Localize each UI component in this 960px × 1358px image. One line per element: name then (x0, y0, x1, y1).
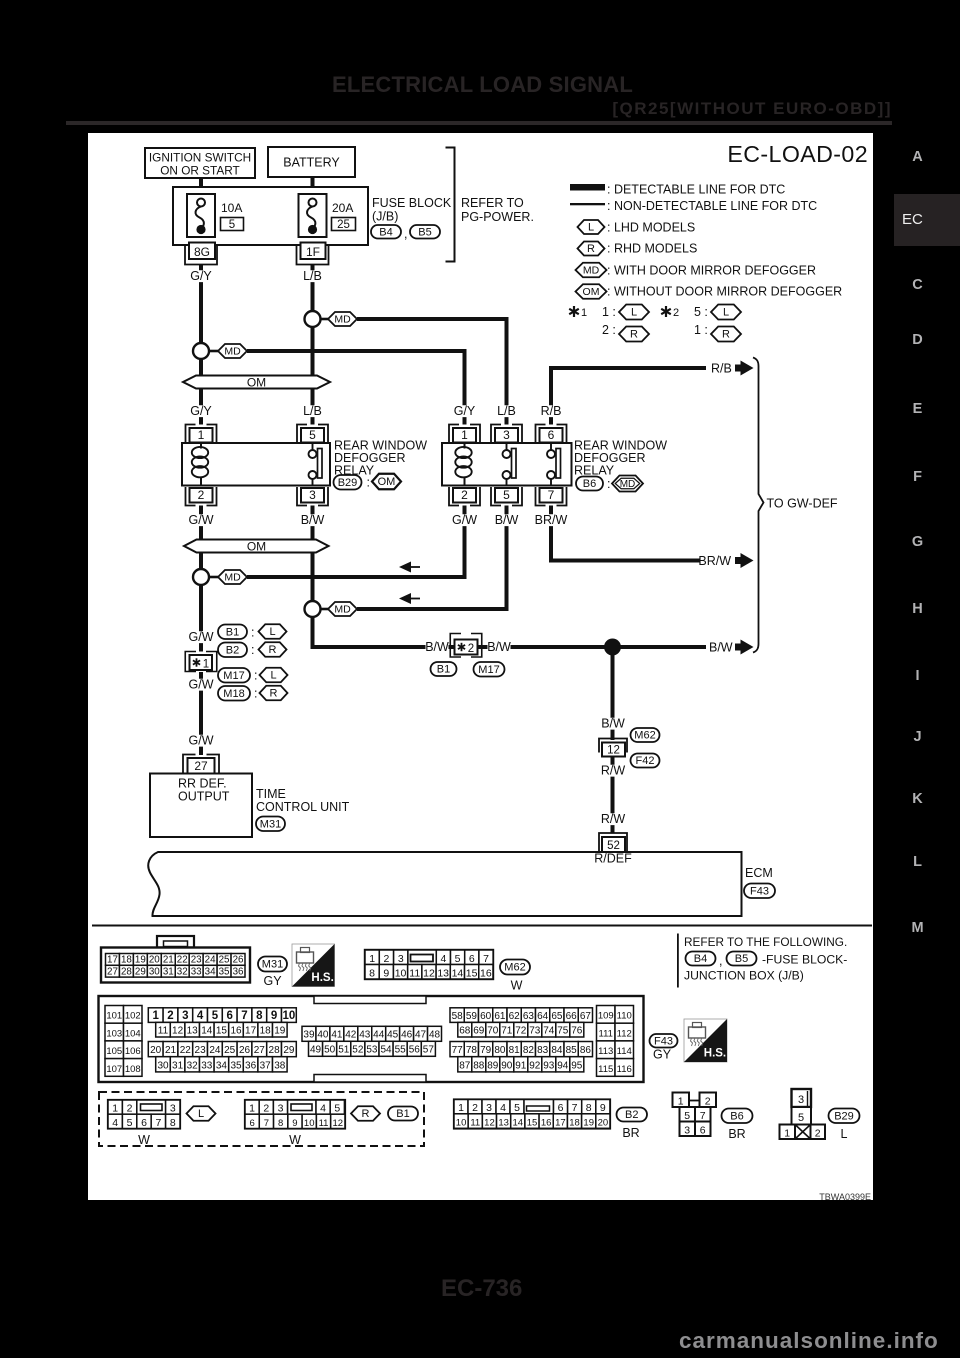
connector tag list B2 R (218, 642, 287, 657)
svg-text:16: 16 (230, 1025, 242, 1036)
svg-text:M17: M17 (223, 670, 244, 682)
svg-text:L: L (269, 626, 275, 638)
svg-text:7: 7 (483, 953, 489, 965)
svg-text:REFER TO THE FOLLOWING.: REFER TO THE FOLLOWING. (684, 935, 847, 949)
svg-text:30: 30 (157, 1060, 169, 1071)
svg-text:32: 32 (187, 1060, 199, 1071)
svg-text:27: 27 (254, 1045, 266, 1056)
svg-text:L: L (270, 670, 276, 682)
label G/Y above relay B6 pin1 (453, 404, 476, 418)
svg-text:38: 38 (274, 1060, 286, 1071)
svg-text:25: 25 (337, 219, 350, 231)
svg-text:: LHD MODELS: : LHD MODELS (607, 221, 695, 235)
sidebar section letter I (894, 667, 941, 685)
direction arrow on G/W branch (399, 562, 420, 573)
sidebar section letter D (894, 331, 941, 349)
svg-text:B1: B1 (396, 1108, 409, 1120)
svg-text:4: 4 (112, 1117, 118, 1129)
svg-text:109: 109 (598, 1011, 614, 1022)
svg-text:15: 15 (527, 1118, 538, 1129)
svg-text:3: 3 (398, 953, 404, 965)
svg-text:15: 15 (466, 967, 478, 979)
legend LHD models (578, 220, 696, 235)
svg-text:10: 10 (395, 967, 407, 979)
svg-text:80: 80 (494, 1045, 506, 1056)
svg-text:H.S.: H.S. (311, 972, 333, 984)
fuse 20A no.25 (299, 194, 327, 237)
tag F43 with color (650, 1034, 678, 1062)
svg-text:22: 22 (180, 1045, 192, 1056)
MD tag on L/B node and branch wire to relay B6 pin3 (321, 312, 507, 425)
svg-text:11: 11 (319, 1118, 329, 1129)
svg-text:95: 95 (571, 1060, 583, 1071)
watermark (679, 1328, 939, 1354)
svg-text:1: 1 (249, 1103, 255, 1115)
svg-text:6: 6 (226, 1010, 232, 1022)
svg-text:24: 24 (209, 1045, 221, 1056)
svg-text:20A: 20A (332, 201, 353, 215)
svg-text:17: 17 (245, 1025, 257, 1036)
svg-text:7: 7 (155, 1117, 161, 1129)
svg-text:5: 5 (503, 488, 510, 502)
svg-text:103: 103 (106, 1028, 122, 1039)
svg-text:B5: B5 (418, 226, 431, 238)
svg-text:OUTPUT: OUTPUT (178, 790, 230, 804)
svg-text:85: 85 (566, 1045, 578, 1056)
svg-text:110: 110 (617, 1011, 632, 1022)
svg-text:25: 25 (219, 954, 230, 965)
svg-text:R/W: R/W (601, 812, 626, 826)
H.S. mark for M31 (292, 944, 335, 987)
svg-text:5: 5 (455, 953, 461, 965)
svg-text:61: 61 (494, 1011, 506, 1022)
svg-text:3: 3 (486, 1102, 492, 1114)
svg-text:2: 2 (815, 1128, 821, 1140)
svg-text:1 :: 1 : (694, 323, 708, 337)
svg-text:28: 28 (121, 966, 132, 977)
svg-text:58: 58 (452, 1011, 464, 1022)
fuse block J/B box (173, 187, 368, 245)
svg-text:64: 64 (537, 1011, 549, 1022)
svg-text:BR/W: BR/W (535, 513, 568, 527)
svg-text:BATTERY: BATTERY (283, 156, 340, 170)
sidebar section letter L (894, 853, 941, 871)
svg-text:7: 7 (548, 488, 555, 502)
svg-text:17: 17 (107, 954, 118, 965)
svg-text:4: 4 (197, 1010, 204, 1022)
svg-text:6: 6 (141, 1117, 147, 1129)
svg-text:5: 5 (212, 1010, 219, 1022)
svg-text:87: 87 (459, 1060, 471, 1071)
wire G/W star1 to pin 27 (199, 672, 203, 755)
svg-text:G/W: G/W (189, 678, 214, 692)
svg-text:6: 6 (700, 1125, 706, 1137)
svg-text:20: 20 (598, 1118, 609, 1129)
svg-text:84: 84 (551, 1045, 563, 1056)
svg-text:51: 51 (338, 1045, 350, 1056)
svg-text:6: 6 (469, 953, 475, 965)
refer to the following text (684, 935, 847, 983)
label R/W below connector 12 (601, 764, 626, 778)
svg-text:M31: M31 (260, 818, 281, 830)
svg-text:R: R (362, 1108, 370, 1120)
svg-text::: : (607, 477, 610, 491)
svg-text:2: 2 (263, 1103, 269, 1115)
svg-text:82: 82 (523, 1045, 535, 1056)
tag M62 (631, 728, 660, 742)
svg-text:34: 34 (205, 966, 216, 977)
relay B6 pin 7 (536, 487, 567, 506)
svg-text:94: 94 (557, 1060, 569, 1071)
node on G/W wire (193, 569, 209, 585)
svg-text:G/W: G/W (452, 513, 477, 527)
svg-text:R/DEF: R/DEF (594, 852, 632, 866)
svg-text:83: 83 (537, 1045, 549, 1056)
svg-text:6: 6 (558, 1102, 564, 1114)
svg-text:7: 7 (700, 1110, 706, 1122)
svg-text:8: 8 (278, 1118, 283, 1129)
svg-text:24: 24 (205, 954, 216, 965)
svg-text:5: 5 (514, 1102, 520, 1114)
svg-text:11: 11 (409, 967, 420, 979)
svg-text:B29: B29 (834, 1110, 854, 1122)
label L/B above relay B6 pin3 (495, 404, 518, 418)
svg-text:71: 71 (501, 1025, 513, 1036)
arrow R/B out (735, 361, 754, 376)
node on B/W wire (305, 601, 321, 617)
MD tag on B/W node and wire from relay B6 pin5 (321, 506, 507, 617)
svg-text:54: 54 (380, 1045, 392, 1056)
label 10A and fuse number 5 (221, 201, 244, 231)
svg-text::: : (251, 643, 254, 657)
svg-text:8G: 8G (194, 245, 210, 259)
svg-text:44: 44 (373, 1030, 385, 1041)
svg-text:16: 16 (480, 967, 492, 979)
svg-text:L/B: L/B (303, 269, 322, 283)
svg-text:8: 8 (256, 1010, 263, 1022)
svg-text:102: 102 (125, 1011, 141, 1022)
svg-text:10: 10 (456, 1118, 467, 1129)
svg-text:W: W (511, 979, 523, 993)
svg-text:89: 89 (487, 1060, 499, 1071)
svg-text:62: 62 (509, 1011, 521, 1022)
svg-text:112: 112 (617, 1028, 632, 1039)
svg-text:B2: B2 (226, 644, 239, 656)
drawing code TBWA0399E (819, 1192, 871, 1202)
svg-text:18: 18 (121, 954, 132, 965)
svg-text:23: 23 (191, 954, 202, 965)
svg-text:R/B: R/B (711, 362, 732, 376)
svg-text:28: 28 (269, 1045, 281, 1056)
svg-text:10: 10 (283, 1010, 296, 1022)
svg-text:42: 42 (345, 1030, 357, 1041)
svg-text:L: L (588, 222, 594, 234)
svg-text:(J/B): (J/B) (372, 210, 398, 224)
svg-text:,: , (719, 954, 722, 968)
wire B/W horizontal run (313, 645, 707, 649)
fuse block label and connectors B4 B5 (371, 196, 452, 241)
label G/Y above relay B29 pin1 (190, 404, 213, 418)
label G/W above pin 27 (189, 734, 214, 748)
svg-text:1: 1 (369, 953, 375, 965)
svg-text:1: 1 (581, 307, 587, 319)
relay B6 switch 1 (503, 443, 517, 486)
svg-text:20: 20 (149, 954, 160, 965)
svg-text:B6: B6 (583, 478, 596, 490)
sidebar section letter H (894, 600, 941, 618)
arrow BR/W out (735, 553, 754, 568)
sidebar section letter E (894, 400, 941, 418)
label R/B above relay B6 pin6 (540, 404, 563, 418)
svg-text:115: 115 (598, 1064, 613, 1075)
svg-text:L/B: L/B (497, 404, 516, 418)
sidebar section letter K (894, 790, 941, 808)
arrow B/W out (735, 640, 754, 655)
svg-text:REFER TO: REFER TO (461, 196, 524, 210)
OM band upper (183, 376, 330, 390)
svg-text:RELAY: RELAY (574, 464, 615, 478)
svg-text:: WITH DOOR MIRROR DEFOGGER: : WITH DOOR MIRROR DEFOGGER (607, 264, 816, 278)
relay B6 name text (574, 439, 667, 478)
svg-text:76: 76 (571, 1025, 583, 1036)
relay B6 switch 2 (547, 443, 561, 486)
svg-text:2: 2 (127, 1103, 133, 1115)
svg-text:34: 34 (216, 1060, 228, 1071)
svg-text:G/Y: G/Y (190, 404, 212, 418)
label L/B above relay B29 pin5 (301, 404, 324, 418)
svg-text:15: 15 (216, 1025, 228, 1036)
svg-text:86: 86 (580, 1045, 592, 1056)
svg-text:B29: B29 (338, 477, 358, 489)
svg-text:9: 9 (292, 1118, 297, 1129)
svg-text:B1: B1 (226, 626, 239, 638)
svg-text:3: 3 (503, 428, 510, 442)
tag R for RHD connector (351, 1106, 380, 1121)
svg-text:TO GW-DEF: TO GW-DEF (767, 497, 838, 511)
svg-text:B/W: B/W (495, 513, 519, 527)
svg-text:11: 11 (158, 1025, 169, 1036)
tag M62 with color (500, 960, 530, 993)
svg-text:L: L (631, 307, 637, 319)
label G/W under relay B29 pin2 (189, 513, 214, 527)
svg-text:1: 1 (678, 1096, 684, 1108)
svg-text:4: 4 (500, 1102, 506, 1114)
refer-to-following divider (677, 934, 679, 988)
wire B/W relay B29 pin3 down (311, 506, 315, 650)
svg-text:105: 105 (106, 1046, 122, 1057)
svg-text:BR: BR (622, 1126, 639, 1140)
svg-text:33: 33 (201, 1060, 213, 1071)
node on G/Y wire (193, 343, 209, 359)
svg-text:M18: M18 (223, 688, 244, 700)
svg-text:RR DEF.: RR DEF. (178, 777, 227, 791)
svg-text:26: 26 (233, 954, 244, 965)
svg-text:PG-POWER.: PG-POWER. (461, 210, 534, 224)
svg-text:36: 36 (233, 966, 244, 977)
svg-text:22: 22 (177, 954, 188, 965)
label G/Y under fuse (190, 269, 213, 283)
connector M62 pinout (365, 950, 493, 979)
svg-text:3: 3 (309, 488, 316, 502)
svg-text:52: 52 (607, 840, 620, 852)
svg-text:B5: B5 (735, 953, 748, 965)
svg-text:52: 52 (352, 1045, 364, 1056)
relay B29 name text (334, 439, 427, 478)
svg-text:TIME: TIME (256, 787, 286, 801)
wire G/W relay B29 pin2 down (199, 506, 203, 652)
page header: chapter title (332, 72, 633, 98)
svg-text:W: W (289, 1133, 301, 1147)
wire G/Y fuse to relay B29 pin1 (199, 265, 203, 425)
svg-text:B6: B6 (730, 1110, 743, 1122)
svg-text:19: 19 (583, 1118, 594, 1129)
svg-text:CONTROL UNIT: CONTROL UNIT (256, 800, 350, 814)
sidebar section letter J (894, 728, 941, 746)
svg-text:9: 9 (383, 967, 389, 979)
relay B29 connector tag (334, 474, 402, 490)
tag B6 with color (722, 1109, 753, 1142)
svg-text:14: 14 (513, 1118, 524, 1129)
svg-text:1: 1 (112, 1103, 118, 1115)
svg-text:101: 101 (106, 1011, 122, 1022)
label B/W under relay B6 pin5 (495, 513, 519, 527)
svg-text:B1: B1 (437, 664, 450, 676)
svg-text:7: 7 (241, 1010, 247, 1022)
svg-text:12: 12 (172, 1025, 184, 1036)
svg-text:MD: MD (224, 572, 241, 584)
svg-text:M62: M62 (634, 730, 655, 742)
svg-text:66: 66 (566, 1011, 578, 1022)
svg-text:B4: B4 (694, 953, 707, 965)
connector B2 pinout (454, 1100, 610, 1129)
svg-text:49: 49 (310, 1045, 322, 1056)
svg-text:57: 57 (423, 1045, 435, 1056)
label BR/W under relay B6 pin7 (535, 513, 568, 527)
connector tags B1 M17 under star2 (431, 662, 505, 677)
svg-text:2: 2 (167, 1010, 173, 1022)
label BR/W right (698, 554, 731, 568)
svg-text:81: 81 (509, 1045, 521, 1056)
svg-text:48: 48 (429, 1030, 441, 1041)
svg-text:R: R (269, 644, 277, 656)
svg-text:: WITHOUT DOOR MIRROR DEFOGGER: : WITHOUT DOOR MIRROR DEFOGGER (607, 285, 842, 299)
svg-text:G/Y: G/Y (454, 404, 476, 418)
svg-text:: NON-DETECTABLE LINE FOR DTC: : NON-DETECTABLE LINE FOR DTC (607, 199, 817, 213)
svg-text:1: 1 (461, 428, 468, 442)
svg-text:77: 77 (452, 1045, 464, 1056)
svg-text:F43: F43 (654, 1035, 673, 1047)
svg-text:8: 8 (170, 1117, 176, 1129)
connector F43 pinout (99, 996, 644, 1082)
svg-text:ECM: ECM (745, 866, 773, 880)
svg-text:2: 2 (472, 1102, 478, 1114)
svg-text:R: R (722, 329, 730, 341)
H.S. mark for F43 (684, 1019, 727, 1062)
svg-text:32: 32 (177, 966, 188, 977)
connector 8G (185, 243, 217, 265)
svg-text:26: 26 (239, 1045, 251, 1056)
svg-text:9: 9 (271, 1010, 277, 1022)
time control unit RR DEF OUTPUT text (178, 777, 230, 804)
connector B6 pinout (673, 1093, 717, 1137)
svg-text:B/W: B/W (301, 513, 325, 527)
svg-text:30: 30 (149, 966, 160, 977)
svg-text:2: 2 (384, 953, 390, 965)
svg-text:21: 21 (163, 954, 174, 965)
svg-text:72: 72 (515, 1025, 527, 1036)
dashed option box (99, 1092, 424, 1146)
label L/B under fuse (301, 269, 324, 283)
svg-text:2: 2 (461, 488, 468, 502)
relay B6 body (442, 443, 572, 486)
connector 1F (297, 243, 329, 265)
battery box (268, 147, 355, 177)
svg-text:R: R (630, 329, 638, 341)
page number footer (441, 1275, 522, 1303)
svg-text:L: L (723, 307, 729, 319)
svg-text:G/W: G/W (189, 513, 214, 527)
svg-text:41: 41 (331, 1030, 343, 1041)
legend without door mirror defogger (576, 284, 843, 299)
svg-text:G/W: G/W (189, 630, 214, 644)
svg-text:74: 74 (543, 1025, 555, 1036)
svg-text:18: 18 (569, 1118, 580, 1129)
svg-text:63: 63 (523, 1011, 535, 1022)
svg-text:53: 53 (366, 1045, 378, 1056)
svg-text:MD: MD (334, 604, 351, 616)
svg-text:50: 50 (324, 1045, 336, 1056)
svg-text:ON OR START: ON OR START (160, 164, 240, 178)
svg-text:B/W: B/W (487, 640, 511, 654)
svg-text:33: 33 (191, 966, 202, 977)
svg-text:12: 12 (484, 1118, 495, 1129)
svg-text:35: 35 (219, 966, 230, 977)
svg-text:5 :: 5 : (694, 305, 708, 319)
svg-text:5: 5 (127, 1117, 133, 1129)
svg-text:M17: M17 (478, 664, 499, 676)
legend with door mirror defogger (576, 263, 817, 278)
sidebar section letter M (894, 919, 941, 937)
svg-text:L/B: L/B (303, 404, 322, 418)
svg-text::: : (367, 476, 370, 490)
svg-text:BR: BR (728, 1127, 745, 1141)
time control unit connector tag M31 (256, 817, 285, 832)
svg-text:7: 7 (264, 1118, 269, 1129)
svg-text:5: 5 (334, 1103, 340, 1115)
separator line above connector section (92, 925, 872, 927)
svg-text:70: 70 (487, 1025, 499, 1036)
connector tag list M17 L (218, 668, 288, 683)
svg-text:21: 21 (165, 1045, 177, 1056)
svg-text:FUSE BLOCK: FUSE BLOCK (372, 196, 452, 210)
sidebar section letter F (894, 468, 941, 486)
svg-text:8: 8 (586, 1102, 592, 1114)
relay B29 coil (192, 443, 208, 486)
node on L/B wire (305, 311, 321, 327)
connector tag list M18 R (218, 686, 288, 701)
svg-text:29: 29 (283, 1045, 295, 1056)
svg-text:TBWA0399E: TBWA0399E (819, 1192, 871, 1200)
svg-text:R: R (270, 688, 278, 700)
relay B6 pin 1 (449, 425, 480, 444)
svg-text:18: 18 (260, 1025, 272, 1036)
svg-text:116: 116 (617, 1064, 632, 1075)
svg-text:40: 40 (317, 1030, 329, 1041)
label B/W above connector 12 (601, 717, 625, 731)
sidebar section letter A (894, 148, 941, 166)
svg-text:5: 5 (229, 219, 235, 231)
svg-text:13: 13 (498, 1118, 509, 1129)
